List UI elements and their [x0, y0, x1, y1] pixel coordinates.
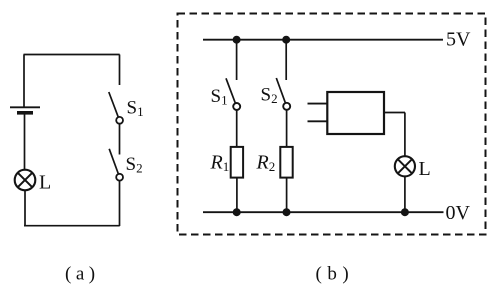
svg-text:0V: 0V — [446, 202, 471, 224]
node junction dot S1 branch on 0V rail — [233, 208, 241, 216]
svg-text:L: L — [419, 158, 431, 180]
wire bottom of circuit (a) — [24, 225, 120, 227]
svg-text:5V: 5V — [446, 29, 471, 51]
resistor R1 body — [231, 147, 243, 178]
battery B1 long plate — [10, 106, 40, 108]
logic gate U1 body — [327, 92, 384, 134]
wire lamp to 0V rail (b) — [404, 176, 406, 212]
wire gate output vertical to lamp — [404, 113, 406, 157]
switch S2 (a) contact circle — [116, 174, 123, 181]
svg-text:(a): (a) — [65, 264, 100, 285]
wire left upper (a): top rail to battery — [23, 55, 25, 108]
lamp L (b) cross — [398, 159, 412, 173]
wire S2 branch upper (b) — [285, 40, 287, 80]
svg-text:(b): (b) — [316, 264, 355, 285]
switch S2 (a) blade — [109, 149, 118, 174]
wire 5V rail — [203, 39, 443, 41]
gate U1 input stub 1 — [308, 103, 328, 105]
gate U1 input stub 2 — [308, 120, 328, 122]
svg-text:R2: R2 — [256, 152, 276, 175]
switch S1 (b) contact circle — [233, 103, 240, 110]
wire left middle (a): battery to lamp — [24, 113, 26, 170]
svg-text:S2: S2 — [126, 154, 143, 176]
battery B1 short plate — [17, 111, 33, 115]
wire left lower (a): lamp to bottom rail — [24, 190, 26, 226]
wire S2 branch middle (b): switch to R2 — [286, 110, 288, 147]
switch S1 (a) blade — [109, 92, 119, 117]
wire right upper (a): top rail to switch S1 — [119, 55, 121, 86]
switch S1 (a) contact circle — [116, 117, 123, 124]
node junction dot lamp branch on 0V rail — [401, 208, 409, 216]
wire right lower (a): S2 to bottom rail — [119, 181, 121, 226]
wire top of circuit (a) — [24, 54, 120, 56]
svg-text:S1: S1 — [211, 86, 228, 108]
dashed enclosure of circuit (b) — [178, 14, 486, 235]
switch S2 (b) contact circle — [283, 103, 290, 110]
lamp L (b) circle — [395, 156, 415, 176]
node junction dot S1 branch on 5V rail — [233, 36, 241, 44]
wire S1 branch lower (b): R1 to 0V rail — [236, 178, 238, 213]
switch S1 (b) blade — [226, 78, 235, 103]
node junction dot S2 branch on 5V rail — [282, 36, 290, 44]
wire gate output horizontal — [384, 112, 405, 114]
resistor R2 body — [280, 147, 292, 178]
switch S2 (b) blade — [276, 78, 285, 103]
wire 0V rail — [203, 211, 444, 213]
svg-text:R1: R1 — [210, 152, 230, 175]
lamp L (a) cross — [18, 173, 32, 187]
lamp L (a) circle — [15, 170, 36, 191]
wire right middle (a): S1 to S2 — [119, 124, 121, 155]
svg-text:L: L — [39, 172, 51, 194]
svg-text:S2: S2 — [261, 85, 278, 107]
svg-text:S1: S1 — [127, 98, 144, 120]
wire S1 branch middle (b): switch to R1 — [236, 110, 238, 147]
node junction dot S2 branch on 0V rail — [283, 208, 291, 216]
wire S2 branch lower (b): R2 to 0V rail — [286, 178, 288, 213]
wire S1 branch upper (b) — [236, 40, 238, 80]
